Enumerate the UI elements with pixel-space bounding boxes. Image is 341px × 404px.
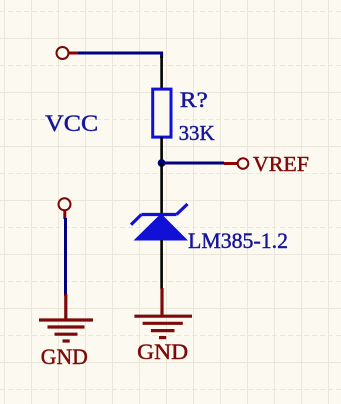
power ground symbol (left): [39, 294, 93, 341]
svg-text:R?: R?: [180, 87, 208, 112]
resistor R? pin 2 (bottom): [160, 137, 163, 163]
svg-text:VCC: VCC: [45, 111, 98, 136]
terminal VREF (open circle): [224, 158, 248, 169]
zener diode pin (cathode, junction to bar): [160, 163, 163, 214]
svg-text:33K: 33K: [179, 121, 215, 145]
net label VCC: [45, 111, 98, 136]
resistor R? pin 1 (top): [160, 56, 163, 89]
svg-text:GND: GND: [41, 344, 88, 369]
resistor R? body: [153, 89, 171, 137]
svg-text:VREF: VREF: [253, 152, 309, 176]
svg-text:GND: GND: [137, 339, 188, 364]
wire (left terminal down to ground): [64, 218, 67, 296]
power ground symbol (center): [134, 288, 192, 338]
junction node (wire junction dot): [158, 159, 166, 167]
zener diode LM385-1.2 symbol: [131, 204, 188, 241]
zener diode pin (anode, to ground): [160, 240, 163, 289]
wire (junction to VREF terminal): [162, 162, 224, 165]
wire (top terminal to resistor R? top pin): [78, 53, 162, 58]
svg-text:LM385-1.2: LM385-1.2: [188, 228, 288, 253]
terminal (left open circle, VCC branch): [59, 198, 71, 219]
terminal (top-left open circle): [57, 47, 79, 59]
